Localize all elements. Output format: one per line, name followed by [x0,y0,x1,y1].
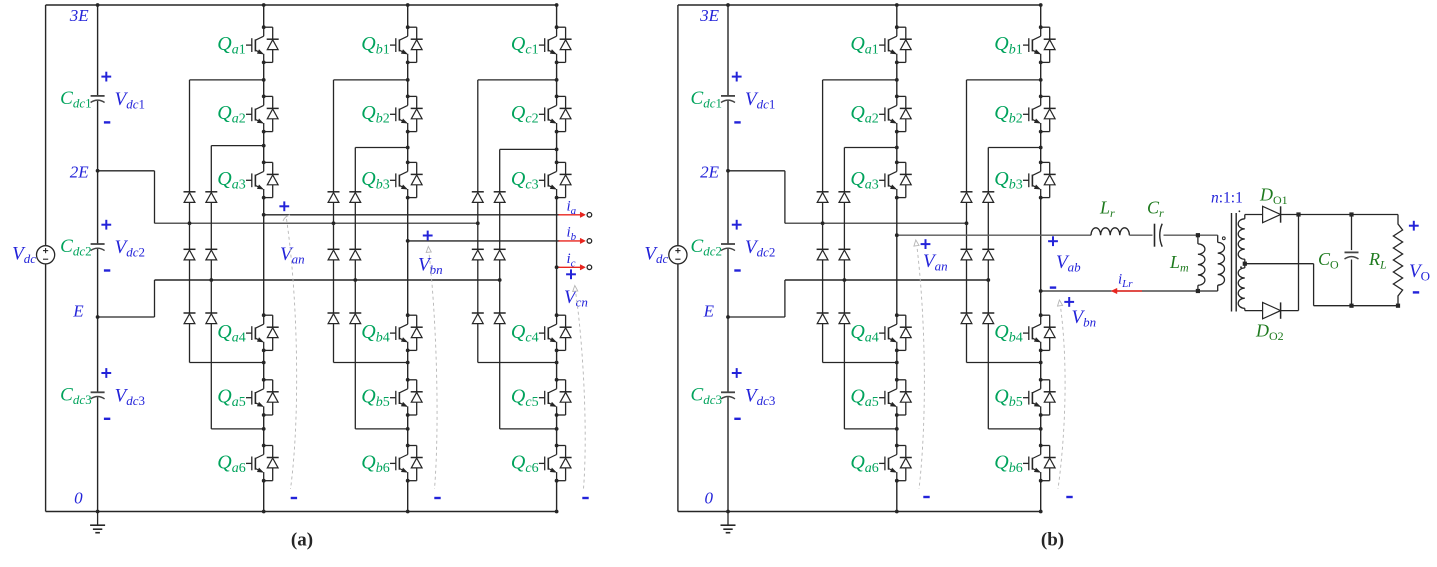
svg-text:E: E [72,302,84,321]
svg-text:n:1:1: n:1:1 [1211,190,1243,207]
svg-text:0: 0 [705,489,714,508]
svg-text:(a): (a) [291,530,313,551]
svg-text:3E: 3E [699,6,720,25]
svg-text:2E: 2E [700,163,720,182]
svg-text:0: 0 [74,489,83,508]
svg-text:3E: 3E [69,6,90,25]
svg-text:(b): (b) [1041,530,1064,551]
svg-text:E: E [703,302,715,321]
svg-text:2E: 2E [70,163,90,182]
